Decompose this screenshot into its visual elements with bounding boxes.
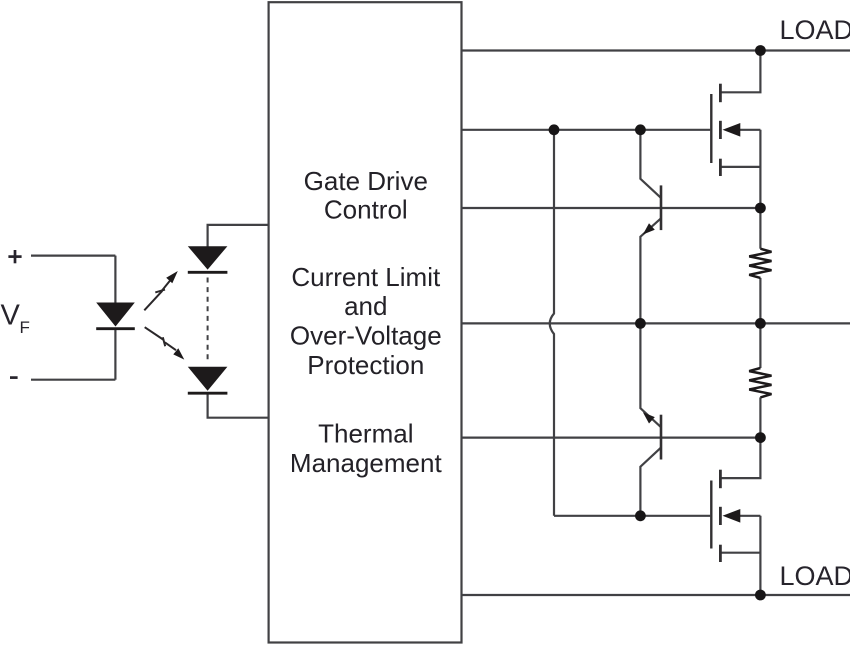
mosfet Q1 gate bar bbox=[710, 94, 712, 163]
wire Q3 emitter to middle rail bbox=[640, 218, 661, 323]
wire Q1 drain bbox=[722, 51, 761, 93]
wire top load rail bbox=[462, 49, 850, 51]
wire bottom load rail bbox=[462, 594, 850, 596]
LED D1 cathode bar bbox=[96, 327, 135, 330]
wire photodiode stack top to control block bbox=[208, 225, 269, 247]
photodiode D3 cathode bar bbox=[188, 392, 228, 395]
wire Q3 collector to gate line bbox=[640, 130, 661, 198]
mosfet Q1 channel segments bbox=[719, 84, 722, 176]
junction node middle rail / emitters bbox=[635, 318, 646, 329]
mosfet Q2 body arrowhead bbox=[723, 509, 741, 523]
wire Q4 collector to gate line bbox=[640, 448, 661, 516]
label plus bbox=[8, 250, 21, 263]
svg-text:Current Limit: Current Limit bbox=[291, 262, 441, 292]
wire Q1 source to node bbox=[759, 130, 761, 208]
wire middle rail bbox=[462, 322, 850, 324]
junction node Q2 drain / R2 bbox=[755, 432, 766, 443]
transistor Q3 base bar bbox=[660, 185, 663, 230]
wire gate feed vertical with hop over middle rail bbox=[550, 130, 554, 516]
junction node Q1 source / R1 bbox=[755, 203, 766, 214]
photodiode D2 cathode bar bbox=[188, 271, 228, 274]
wire R1 to middle rail bbox=[759, 278, 761, 324]
wire LED cathode bbox=[114, 330, 116, 380]
transistor Q4 emitter arrowhead bbox=[643, 412, 655, 423]
wire Q2 source stub bbox=[722, 552, 761, 554]
svg-text:Over-Voltage: Over-Voltage bbox=[290, 321, 442, 351]
wire photodiode stack bottom to control block bbox=[208, 394, 269, 418]
light arrow lower bbox=[145, 327, 176, 350]
wire Q1 source stub bbox=[722, 166, 761, 168]
transistor Q3 emitter arrowhead bbox=[643, 223, 655, 234]
wire R2 to Q2 drain node bbox=[759, 397, 761, 437]
junction node gate line / feed bbox=[549, 124, 560, 135]
resistor R2 bbox=[749, 368, 771, 397]
wire Q3 base line bbox=[462, 207, 761, 209]
junction node gate line / Q3 collector bbox=[635, 124, 646, 135]
wire input minus lead bbox=[31, 379, 115, 381]
svg-text:Management: Management bbox=[290, 448, 443, 478]
mosfet Q1 body arrowhead bbox=[723, 123, 741, 137]
junction node Q2 gate line / Q4 collector bbox=[635, 510, 646, 521]
wire Q1 body lead bbox=[740, 129, 761, 131]
mosfet Q2 channel segments bbox=[719, 470, 722, 562]
svg-text:Gate Drive: Gate Drive bbox=[304, 166, 428, 196]
mosfet Q2 gate bar bbox=[710, 481, 712, 549]
svg-text:Control: Control bbox=[324, 194, 408, 224]
svg-text:Protection: Protection bbox=[307, 350, 424, 380]
LED D1 triangle bbox=[96, 303, 135, 327]
wire Q2 body lead bbox=[740, 515, 761, 517]
resistor R1 bbox=[749, 249, 771, 278]
junction node bottom load rail bbox=[755, 590, 766, 601]
wire gate drive line Q2 bbox=[554, 515, 710, 517]
dashed link between photodiodes bbox=[207, 278, 209, 362]
junction node top load rail bbox=[755, 45, 766, 56]
wire Q4 base line bbox=[462, 437, 761, 439]
svg-text:V: V bbox=[1, 299, 21, 331]
svg-text:LOAD: LOAD bbox=[780, 15, 850, 45]
wire Q2 source to bottom rail bbox=[759, 516, 761, 595]
wire Q4 emitter to middle rail bbox=[640, 323, 661, 427]
wire middle rail to R2 bbox=[759, 323, 761, 368]
svg-text:F: F bbox=[20, 318, 30, 337]
svg-text:and: and bbox=[344, 291, 387, 321]
light arrow upper bbox=[144, 279, 171, 311]
wire LED anode bbox=[114, 256, 116, 303]
wire input plus lead bbox=[31, 255, 115, 257]
transistor Q4 base bar bbox=[660, 415, 663, 460]
control block rectangle bbox=[269, 2, 462, 642]
svg-text:Thermal: Thermal bbox=[318, 418, 413, 448]
control block text bbox=[290, 166, 443, 478]
wire node to R1 bbox=[759, 208, 761, 249]
wire Q2 drain bbox=[722, 438, 761, 479]
svg-text:LOAD: LOAD bbox=[780, 561, 850, 591]
wire gate drive line Q1 bbox=[462, 129, 711, 131]
photodiode D2 triangle bbox=[188, 246, 228, 269]
photodiode D3 triangle bbox=[188, 367, 228, 391]
label minus bbox=[10, 376, 18, 379]
junction node middle rail / resistors bbox=[755, 318, 766, 329]
